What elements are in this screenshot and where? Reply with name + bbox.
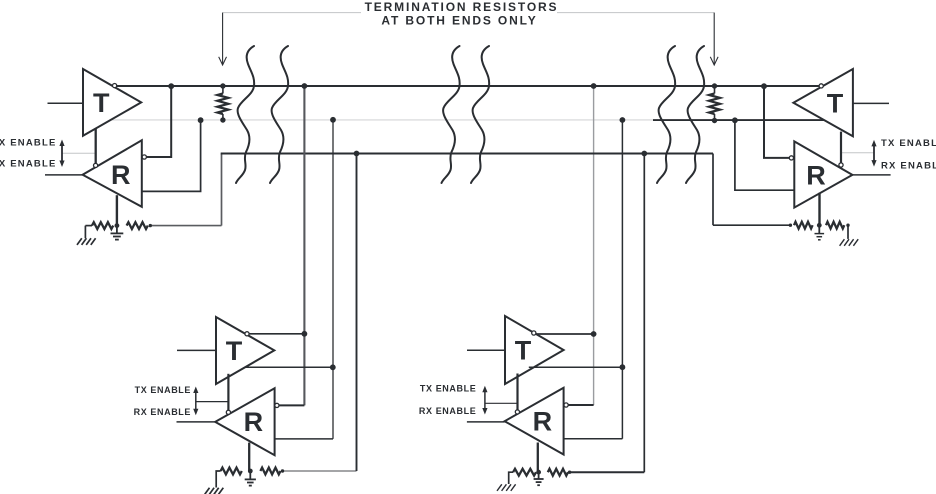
wire R output (upper left) <box>45 174 83 176</box>
wire A drop corner (mid right) <box>593 404 595 406</box>
wire ground to bias (upper right) <box>713 224 790 226</box>
wire ground-bus right riser <box>712 154 714 226</box>
ground (mid right) <box>538 472 540 479</box>
bubble T output (mid right) <box>532 331 536 335</box>
wire R inputA to bus A (upper left) <box>147 88 172 157</box>
driver T (upper right) <box>793 69 853 136</box>
wire T output to A drop (mid left) <box>249 333 304 335</box>
junction on bus A (upper left) <box>168 83 174 89</box>
wire R reference (upper left) <box>116 195 118 226</box>
bubble T output (mid left) <box>245 332 249 336</box>
wire bus A <box>117 85 819 87</box>
wire R reference (upper right) <box>818 193 820 225</box>
junction B drop (mid right) <box>620 364 626 370</box>
bubble R enable (upper left) <box>94 163 98 167</box>
cable break squiggle <box>236 46 254 183</box>
wire bias to ground riser (mid right) <box>570 471 645 473</box>
bias resistor R1 (mid right) <box>513 469 536 476</box>
enable select arrow (mid left) <box>195 391 197 412</box>
wire ground drop to mid-left <box>356 154 358 472</box>
wire TX/RX enable (mid right) <box>516 374 518 410</box>
svg-text:AT BOTH ENDS ONLY: AT BOTH ENDS ONLY <box>381 14 537 28</box>
bubble R input A (mid right) <box>564 403 568 407</box>
wire enable connector (mid right) <box>485 402 518 404</box>
wire R inputA (mid right) <box>568 404 593 406</box>
wire TX/RX enable (mid left) <box>227 374 229 410</box>
bubble R enable (mid left) <box>226 410 230 414</box>
svg-text:T: T <box>515 335 532 365</box>
bias resistor R2 (mid left) <box>260 468 280 475</box>
bubble R input A (mid left) <box>275 403 279 407</box>
node bias end (mid right) <box>568 471 571 474</box>
svg-text:RX ENABLE: RX ENABLE <box>419 406 476 416</box>
wire bus B (light segment) <box>110 119 653 121</box>
pointer arrow right <box>713 13 715 64</box>
earth ground (upper right) <box>847 225 849 239</box>
svg-text:T: T <box>226 336 243 366</box>
wire R reference (mid right) <box>537 443 539 473</box>
junction bias (upper left) <box>115 223 120 228</box>
termination resistor RT2 <box>714 86 716 94</box>
junction B drop (mid left) <box>330 364 336 370</box>
cable break squiggle <box>270 46 288 183</box>
wire R inputB to bus B (upper left) <box>142 122 201 191</box>
wire TX/RX enable (upper left) <box>95 128 97 163</box>
junction on bus A (upper right) <box>761 83 767 89</box>
earth ground (mid left) <box>216 471 220 488</box>
wire T input (upper left) <box>48 102 84 104</box>
wire R reference (mid left) <box>248 443 250 471</box>
junction on bus B (upper right) <box>732 117 738 123</box>
ground (upper left) <box>116 226 118 234</box>
pointer arrow left <box>222 13 224 64</box>
junction A drop (mid right) <box>591 331 597 337</box>
earth ground (upper left) <box>84 226 86 239</box>
ground (upper right) <box>818 225 820 233</box>
wire enable connector (mid left) <box>196 401 229 403</box>
bias resistor R2 (upper right) <box>826 222 844 229</box>
driver T (mid left) <box>216 317 274 384</box>
receiver R (mid right) <box>505 388 564 455</box>
wire R output (upper right) <box>852 174 890 176</box>
wire T outputB to B drop (mid right) <box>529 366 623 368</box>
cable break squiggle <box>471 46 489 183</box>
wire enable leader upper-right <box>841 152 874 154</box>
wire R output (mid right) <box>467 421 505 423</box>
svg-text:TERMINATION RESISTORS: TERMINATION RESISTORS <box>365 0 559 14</box>
wire T input (upper right) <box>853 102 889 104</box>
wire R inputA to bus A (upper right) <box>764 88 789 158</box>
wire bias chain to riser upper-left <box>150 225 221 227</box>
wire bus B drop to mid-right <box>621 120 623 439</box>
wire bus B drop to mid-left <box>332 120 334 439</box>
junction bias (upper right) <box>817 223 822 228</box>
bubble R input A (upper left) <box>142 155 146 159</box>
node bias end (mid left) <box>281 469 284 472</box>
leader line left <box>223 12 361 14</box>
svg-text:R: R <box>111 160 131 190</box>
wire R inputB to bus B (upper right) <box>735 122 794 190</box>
junction bus A / mid-left drop <box>302 83 308 89</box>
bias resistor R2 (upper left) <box>127 222 148 229</box>
svg-text:T: T <box>827 88 844 118</box>
bias resistor R2 (mid right) <box>548 469 568 476</box>
bubble T output (upper right) <box>819 84 823 88</box>
junction bus B / mid-left drop <box>330 117 336 123</box>
svg-text:TX ENABLE: TX ENABLE <box>881 138 936 149</box>
wire R inputB (mid right) <box>564 438 623 440</box>
bias resistor R1 (upper right) <box>794 222 813 229</box>
termination resistor RT1 <box>222 86 224 94</box>
bubble R enable (mid right) <box>515 410 519 414</box>
enable select arrow (upper right) <box>873 144 875 163</box>
svg-text:RX ENABLE: RX ENABLE <box>134 407 191 417</box>
junction bias (mid right) <box>536 470 541 475</box>
node bias end (upper left) <box>149 224 152 227</box>
svg-text:R: R <box>533 407 553 437</box>
svg-text:TX ENABLE: TX ENABLE <box>135 385 191 395</box>
wire ground bus <box>221 153 713 155</box>
wire T output to A drop (mid right) <box>536 333 594 335</box>
junction ground bus / mid-right drop <box>641 151 647 157</box>
svg-text:TX ENABLE: TX ENABLE <box>0 138 57 149</box>
svg-text:T: T <box>93 88 110 118</box>
cable break squiggle <box>686 46 704 183</box>
leader line right <box>557 12 714 14</box>
junction bias (mid left) <box>248 469 253 474</box>
junction A drop (mid left) <box>302 331 308 337</box>
enable select arrow (upper left) <box>61 144 63 164</box>
svg-text:TX ENABLE: TX ENABLE <box>420 384 476 394</box>
svg-text:R: R <box>806 160 826 190</box>
wire ground drop to mid-right <box>643 154 645 473</box>
driver T (mid right) <box>505 316 564 384</box>
wire R output (mid left) <box>177 421 216 423</box>
receiver R (upper left) <box>83 140 142 207</box>
bias resistor R1 (upper left) <box>85 225 92 227</box>
wire TX/RX enable (upper right) <box>840 132 842 163</box>
wire T outputB to B drop (mid left) <box>246 366 333 368</box>
bubble R enable (upper right) <box>839 163 843 167</box>
node bias start (upper right) <box>789 224 792 227</box>
ground (mid left) <box>249 471 251 479</box>
bubble R input A (upper right) <box>789 156 793 160</box>
wire T input (mid right) <box>467 349 505 351</box>
wire R inputB (mid left) <box>275 438 333 440</box>
enable select arrow (mid right) <box>484 390 486 411</box>
junction bus A / mid-right drop <box>591 83 597 89</box>
cable break squiggle <box>657 46 675 183</box>
earth ground (mid right) <box>509 472 513 484</box>
wire R inputA (mid left) <box>279 404 304 406</box>
wire ground-bus left riser <box>221 154 223 226</box>
receiver R (mid left) <box>215 388 274 455</box>
wire bus A drop to mid-left (dark gray) <box>303 86 305 405</box>
junction bus B / mid-right drop <box>620 117 626 123</box>
wire enable leader upper-left <box>62 152 95 154</box>
junction ground bus / mid-left drop <box>354 151 360 157</box>
junction on bus B (upper left) <box>198 117 204 123</box>
svg-text:RX ENABLE: RX ENABLE <box>0 159 57 170</box>
wire bias to ground-bus mid-left (gray) <box>283 470 357 472</box>
driver T (upper left) <box>83 69 141 136</box>
wire T input (mid left) <box>177 349 216 351</box>
cable break squiggle <box>442 46 460 183</box>
bubble T output (upper left) <box>113 84 117 88</box>
wire bus A drop to mid-right (gray) <box>593 86 595 405</box>
node bias end (upper right) <box>846 224 849 227</box>
bias resistor R1 (mid left) <box>221 468 242 475</box>
receiver R (upper right) <box>794 141 852 207</box>
wire bus B (dark segment) <box>653 119 824 121</box>
svg-text:RX ENABLE: RX ENABLE <box>881 160 936 171</box>
svg-text:R: R <box>244 407 264 437</box>
